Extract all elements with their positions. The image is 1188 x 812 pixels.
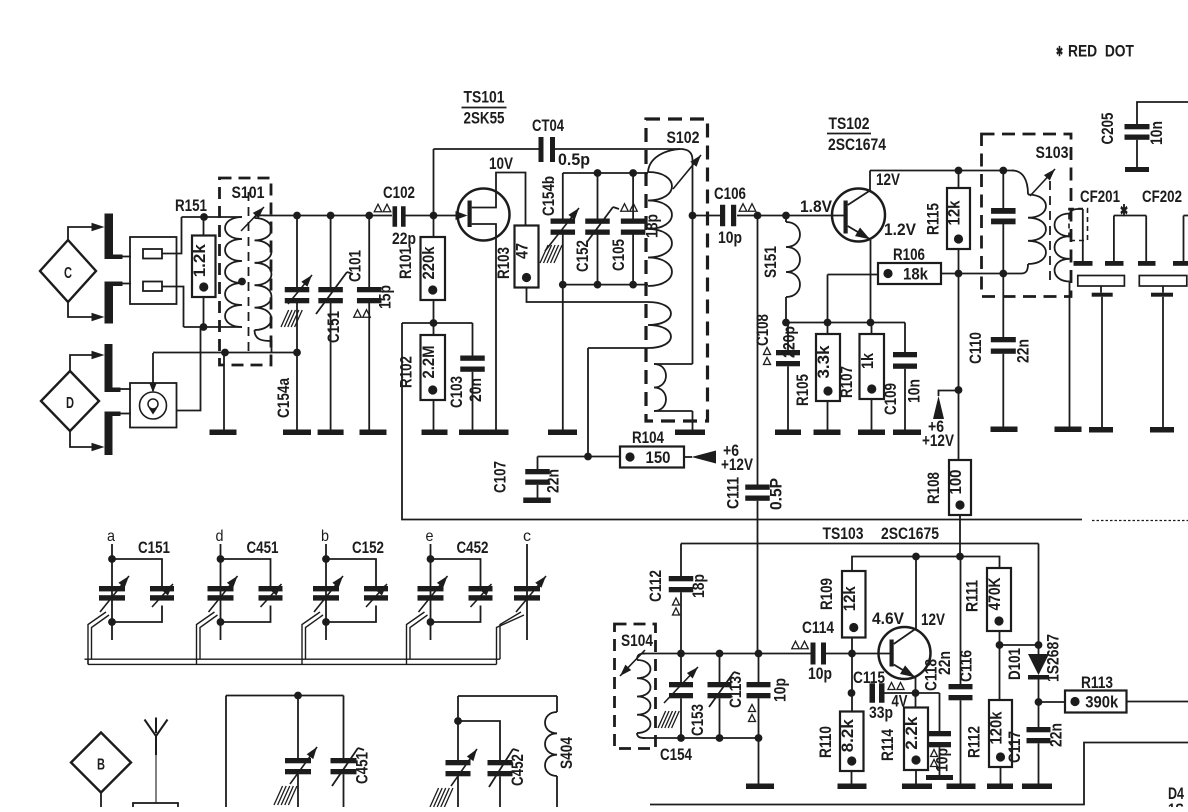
svg-text:C107: C107 bbox=[492, 461, 510, 493]
svg-text:10p: 10p bbox=[808, 665, 832, 683]
svg-text:R115: R115 bbox=[925, 203, 943, 235]
svg-text:1.2V: 1.2V bbox=[884, 221, 916, 239]
svg-text:C113: C113 bbox=[727, 676, 745, 708]
svg-text:8.2k: 8.2k bbox=[838, 719, 857, 753]
svg-text:R101: R101 bbox=[397, 247, 415, 279]
svg-text:C109: C109 bbox=[882, 383, 900, 415]
svg-text:33p: 33p bbox=[869, 704, 893, 722]
svg-text:47: 47 bbox=[513, 243, 532, 259]
svg-text:D101: D101 bbox=[1006, 648, 1024, 680]
svg-text:12k: 12k bbox=[945, 200, 964, 225]
svg-text:10n: 10n bbox=[906, 379, 924, 403]
svg-text:220k: 220k bbox=[419, 246, 438, 279]
svg-text:R114: R114 bbox=[879, 728, 897, 761]
svg-text:C151: C151 bbox=[138, 539, 170, 557]
svg-text:C452: C452 bbox=[457, 539, 489, 557]
svg-text:10p: 10p bbox=[772, 678, 790, 702]
svg-text:TS102: TS102 bbox=[829, 114, 870, 133]
svg-text:C205: C205 bbox=[1099, 113, 1117, 145]
svg-text:12V: 12V bbox=[876, 171, 900, 189]
svg-text:+12V: +12V bbox=[922, 432, 954, 450]
svg-text:R106: R106 bbox=[893, 246, 925, 264]
svg-text:C452: C452 bbox=[509, 754, 527, 786]
svg-text:C111: C111 bbox=[725, 477, 743, 509]
svg-text:12V: 12V bbox=[921, 611, 945, 629]
svg-text:100: 100 bbox=[946, 470, 965, 495]
svg-text:C152: C152 bbox=[352, 539, 384, 557]
svg-text:2.2M: 2.2M bbox=[419, 346, 438, 379]
svg-text:1.8V: 1.8V bbox=[800, 198, 832, 216]
svg-text:C154: C154 bbox=[660, 746, 693, 764]
svg-text:10n: 10n bbox=[1148, 121, 1166, 145]
svg-text:2.2k: 2.2k bbox=[902, 716, 921, 750]
svg-text:d: d bbox=[216, 528, 224, 545]
svg-text:220p: 220p bbox=[781, 326, 799, 358]
svg-text:2SC1675: 2SC1675 bbox=[881, 524, 939, 543]
svg-text:10p: 10p bbox=[934, 748, 952, 772]
svg-text:S102: S102 bbox=[667, 128, 700, 147]
svg-text:C115: C115 bbox=[853, 669, 885, 687]
svg-text:C153: C153 bbox=[689, 704, 707, 736]
svg-text:R102: R102 bbox=[398, 356, 416, 388]
svg-text:0.5P: 0.5P bbox=[768, 478, 786, 510]
svg-text:18k: 18k bbox=[903, 265, 928, 284]
svg-text:22n: 22n bbox=[545, 469, 563, 493]
svg-text:R151: R151 bbox=[175, 197, 207, 215]
svg-text:22n: 22n bbox=[1015, 339, 1033, 363]
svg-text:C151: C151 bbox=[325, 311, 343, 343]
svg-text:20n: 20n bbox=[467, 378, 485, 402]
svg-text:390k: 390k bbox=[1085, 693, 1118, 712]
svg-text:CF202: CF202 bbox=[1142, 188, 1182, 206]
svg-text:2SC1674: 2SC1674 bbox=[828, 135, 886, 154]
svg-text:R103: R103 bbox=[495, 247, 513, 279]
svg-text:R104: R104 bbox=[632, 429, 665, 447]
svg-text:C112: C112 bbox=[647, 570, 665, 602]
svg-text:B: B bbox=[97, 757, 105, 774]
svg-text:12k: 12k bbox=[840, 586, 859, 611]
svg-text:0.5p: 0.5p bbox=[558, 151, 590, 169]
svg-text:R112: R112 bbox=[966, 726, 984, 758]
svg-text:1.2k: 1.2k bbox=[190, 244, 209, 278]
svg-text:e: e bbox=[426, 528, 434, 545]
svg-text:CT04: CT04 bbox=[532, 117, 565, 135]
svg-text:C: C bbox=[64, 265, 72, 282]
svg-text:C117: C117 bbox=[1006, 731, 1024, 763]
svg-text:10V: 10V bbox=[489, 155, 513, 173]
svg-text:S104: S104 bbox=[621, 632, 654, 650]
svg-text:C101: C101 bbox=[347, 250, 365, 282]
svg-text:RED DOT: RED DOT bbox=[1068, 43, 1134, 61]
svg-text:2SK55: 2SK55 bbox=[464, 109, 505, 128]
svg-text:470K: 470K bbox=[985, 577, 1004, 611]
svg-text:C116: C116 bbox=[958, 650, 976, 682]
svg-text:C110: C110 bbox=[967, 332, 985, 364]
svg-text:120k: 120k bbox=[987, 711, 1006, 744]
svg-text:C102: C102 bbox=[383, 184, 415, 202]
svg-text:C108: C108 bbox=[754, 314, 772, 346]
svg-text:C114: C114 bbox=[802, 619, 835, 637]
svg-text:TS103: TS103 bbox=[823, 524, 864, 543]
svg-text:D: D bbox=[66, 395, 74, 412]
svg-text:C451: C451 bbox=[354, 752, 372, 784]
svg-text:1k: 1k bbox=[858, 353, 877, 369]
svg-text:CF201: CF201 bbox=[1080, 188, 1120, 206]
svg-text:C106: C106 bbox=[714, 185, 746, 203]
svg-text:c: c bbox=[523, 528, 531, 545]
svg-text:R107: R107 bbox=[838, 366, 856, 398]
svg-text:C154b: C154b bbox=[540, 176, 558, 216]
svg-text:3.3k: 3.3k bbox=[814, 345, 833, 379]
svg-text:b: b bbox=[321, 528, 329, 545]
svg-text:TS101: TS101 bbox=[464, 88, 505, 107]
svg-text:4.6V: 4.6V bbox=[872, 610, 904, 628]
svg-text:10p: 10p bbox=[718, 229, 742, 247]
svg-text:S151: S151 bbox=[762, 246, 780, 278]
svg-text:R110: R110 bbox=[817, 726, 835, 758]
svg-text:R111: R111 bbox=[964, 580, 982, 612]
svg-text:18p: 18p bbox=[690, 574, 708, 598]
svg-text:C451: C451 bbox=[247, 539, 279, 557]
svg-text:1S: 1S bbox=[1168, 801, 1184, 807]
svg-text:C152: C152 bbox=[574, 240, 592, 272]
svg-text:R105: R105 bbox=[794, 374, 812, 406]
svg-text:S103: S103 bbox=[1036, 143, 1069, 162]
svg-text:+12V: +12V bbox=[721, 456, 753, 474]
svg-text:C154a: C154a bbox=[275, 377, 293, 418]
svg-text:a: a bbox=[107, 528, 115, 545]
svg-text:C105: C105 bbox=[610, 239, 628, 271]
svg-text:22n: 22n bbox=[1048, 723, 1066, 747]
svg-text:R108: R108 bbox=[925, 472, 943, 504]
svg-text:✱: ✱ bbox=[1120, 203, 1128, 220]
svg-text:150: 150 bbox=[646, 448, 671, 467]
svg-text:22n: 22n bbox=[936, 651, 954, 675]
svg-text:R109: R109 bbox=[818, 578, 836, 610]
svg-text:R113: R113 bbox=[1081, 674, 1113, 692]
svg-text:✱: ✱ bbox=[1056, 44, 1063, 59]
svg-text:15p: 15p bbox=[377, 285, 395, 309]
svg-text:22p: 22p bbox=[392, 230, 416, 248]
svg-text:1S2687: 1S2687 bbox=[1045, 634, 1063, 682]
svg-text:S404: S404 bbox=[558, 736, 576, 769]
svg-text:C103: C103 bbox=[448, 376, 466, 408]
